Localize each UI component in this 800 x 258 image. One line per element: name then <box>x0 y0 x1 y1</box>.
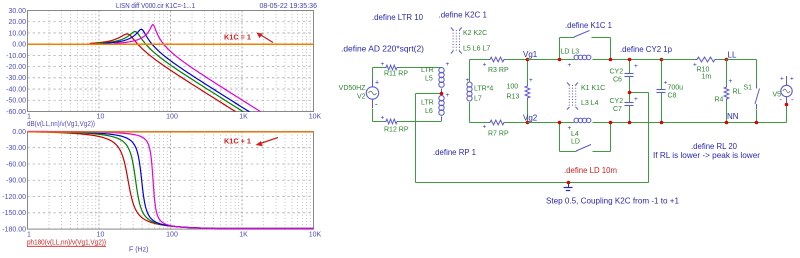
plot2 phase curve f0=25.5 <box>28 132 314 229</box>
node C7 bottom <box>628 121 632 125</box>
svg-text:0.00: 0.00 <box>12 42 26 49</box>
svg-text:+: + <box>664 80 668 87</box>
svg-text:L3 L4: L3 L4 <box>581 100 599 107</box>
coupling K2 symbol <box>452 30 454 51</box>
svg-text:+: + <box>483 124 487 131</box>
svg-text:V5: V5 <box>773 92 782 99</box>
wire S1 to NN rail <box>756 110 758 123</box>
svg-text:CY2: CY2 <box>610 98 624 105</box>
svg-text:100: 100 <box>166 232 178 239</box>
wire NN rail to V5 <box>786 105 788 123</box>
resistor R13 <box>527 60 529 85</box>
plot2 y axis labels <box>2 129 26 234</box>
resistor R4 <box>726 60 728 86</box>
inductor L5 <box>439 68 444 73</box>
svg-text:LTR: LTR <box>421 100 434 107</box>
svg-text:1K: 1K <box>239 114 248 121</box>
svg-text:VD50HZ: VD50HZ <box>339 85 367 92</box>
svg-text:-120.00: -120.00 <box>2 194 26 201</box>
svg-text:.define LD 10m: .define LD 10m <box>564 166 617 175</box>
svg-text:S1: S1 <box>744 85 753 92</box>
wire ground rail <box>416 182 649 184</box>
svg-text:1: 1 <box>27 114 31 121</box>
wire C8 to R10 <box>662 59 696 61</box>
node C6 top <box>628 58 632 62</box>
svg-text:dB(v(LL,nn)/v(Vg1,Vg2)): dB(v(LL,nn)/v(Vg1,Vg2)) <box>27 121 95 128</box>
svg-text:R12 RP: R12 RP <box>384 127 409 134</box>
svg-text:1K: 1K <box>239 232 248 239</box>
capacitor C6 <box>629 60 631 74</box>
svg-text:+: + <box>466 77 470 84</box>
svg-text:CY2: CY2 <box>610 69 624 76</box>
svg-text:-60.00: -60.00 <box>6 161 26 168</box>
svg-text:C6: C6 <box>613 77 622 84</box>
plot1 magnitude curve f0=39.5 <box>28 29 250 111</box>
svg-text:+: + <box>693 62 697 69</box>
plot1 annotation arrow <box>260 35 273 43</box>
node bypass top left <box>558 58 562 62</box>
svg-text:LTR*4: LTR*4 <box>474 86 493 93</box>
svg-text:F (Hz): F (Hz) <box>129 247 148 254</box>
node bypass bottom left <box>558 121 562 125</box>
plot grid <box>28 11 314 230</box>
capacitor C7 <box>629 93 631 103</box>
plot2 phase curve f0=57.0 <box>28 131 314 228</box>
node ground junction <box>567 181 571 185</box>
svg-text:NN: NN <box>727 112 739 121</box>
wire R12 to L6 <box>399 121 442 123</box>
plot1 magnitude curve f0=25.5 <box>28 34 236 112</box>
node C8 top <box>660 58 664 62</box>
wire R10 to LL <box>717 59 727 61</box>
svg-text:+: + <box>729 78 733 85</box>
svg-text:Step 0.5, Coupling K2C from -1: Step 0.5, Coupling K2C from -1 to +1 <box>546 197 680 206</box>
svg-text:100: 100 <box>166 114 178 121</box>
svg-text:.define LTR 10: .define LTR 10 <box>372 13 424 22</box>
svg-text:0.00: 0.00 <box>12 129 26 136</box>
svg-text:LISN diff V000.cir K1C=-1...1: LISN diff V000.cir K1C=-1...1 <box>116 1 195 10</box>
svg-text:R7 RP: R7 RP <box>488 131 509 138</box>
svg-text:-: - <box>375 100 378 109</box>
svg-text:.define K1C 1: .define K1C 1 <box>565 21 613 30</box>
svg-text:10K: 10K <box>309 232 322 239</box>
svg-text:K1 K1C: K1 K1C <box>581 85 605 92</box>
svg-text:-50.00: -50.00 <box>6 98 26 105</box>
node L5-L6 junction <box>440 92 444 96</box>
svg-text:+: + <box>375 80 379 87</box>
svg-text:LL: LL <box>728 51 737 60</box>
svg-text:ph180(v(LL,nn)/v(Vg1,Vg2)): ph180(v(LL,nn)/v(Vg1,Vg2)) <box>27 240 106 247</box>
svg-text:.define K2C 1: .define K2C 1 <box>439 11 488 20</box>
svg-text:-60.00: -60.00 <box>6 109 26 116</box>
svg-text:+: + <box>568 62 572 69</box>
svg-text:+: + <box>446 92 450 99</box>
svg-text:R11 RP: R11 RP <box>384 71 408 78</box>
svg-text:20.00: 20.00 <box>8 19 26 26</box>
svg-text:+: + <box>381 115 385 122</box>
plot1 y axis labels <box>6 8 26 116</box>
wire R11 to L5 <box>399 67 442 69</box>
node V5 bottom <box>785 103 789 107</box>
plot1 border <box>28 11 314 112</box>
wire LL to S1 <box>727 59 757 61</box>
svg-text:LD: LD <box>571 139 580 146</box>
svg-text:C8: C8 <box>668 93 677 100</box>
svg-text:.define AD 220*sqrt(2): .define AD 220*sqrt(2) <box>341 45 424 54</box>
svg-text:10.00: 10.00 <box>8 30 26 37</box>
svg-text:-20.00: -20.00 <box>6 64 26 71</box>
svg-text:1: 1 <box>27 232 31 239</box>
svg-text:+: + <box>634 63 638 70</box>
plot1 magnitude curve f0=32.5 <box>28 32 244 112</box>
svg-text:Vg1: Vg1 <box>523 50 538 59</box>
wire L4 to NN <box>593 122 787 124</box>
svg-text:+: + <box>634 96 638 103</box>
plot1 x axis labels <box>27 114 322 121</box>
svg-text:R3 RP: R3 RP <box>488 67 509 74</box>
svg-text:+: + <box>568 125 572 132</box>
svg-text:LD L3: LD L3 <box>561 49 580 56</box>
svg-text:.define CY2 1p: .define CY2 1p <box>620 45 673 54</box>
svg-text:Vg2: Vg2 <box>523 114 538 123</box>
svg-text:LTR: LTR <box>421 67 434 74</box>
svg-text:-180.00: -180.00 <box>2 227 26 234</box>
svg-text:C7: C7 <box>613 106 622 113</box>
wire R7 to Vg2 <box>506 122 528 124</box>
plot2 phase curve f0=32.5 <box>28 132 314 229</box>
wire L5-L6 midtap <box>416 93 442 95</box>
resistor R11 <box>385 65 399 70</box>
svg-text:.define RL 20: .define RL 20 <box>691 142 738 151</box>
wire R3 to Vg1 <box>506 59 528 61</box>
plot2 border <box>28 131 314 229</box>
plot2 phase curve f0=39.5 <box>28 132 314 229</box>
svg-text:L7: L7 <box>474 96 482 103</box>
inductor L4 <box>574 118 579 123</box>
wire L7 bottom to R7 <box>470 122 489 124</box>
svg-text:+: + <box>790 76 794 83</box>
svg-text:30.00: 30.00 <box>8 8 26 15</box>
source V5 body <box>781 85 792 96</box>
svg-text:10K: 10K <box>309 114 322 121</box>
L4 bypass switch <box>559 123 561 152</box>
switch S1 <box>756 83 758 89</box>
inductor L6 <box>439 96 444 101</box>
svg-text:-150.00: -150.00 <box>2 210 26 217</box>
resistor R3 <box>489 57 506 62</box>
svg-text:-10.00: -10.00 <box>6 53 26 60</box>
resistor R12 <box>385 119 399 124</box>
plot2 x axis labels <box>27 232 322 239</box>
svg-text:-30.00: -30.00 <box>6 145 26 152</box>
wire Ycap midpoint down <box>648 93 650 183</box>
svg-text:700u: 700u <box>668 85 684 92</box>
svg-text:K1C = 1: K1C = 1 <box>224 33 251 42</box>
inductor L7 <box>469 60 471 83</box>
svg-text:R10: R10 <box>697 67 710 74</box>
wire Vg2 to L4 <box>528 122 575 124</box>
resistor R7 <box>489 120 506 125</box>
plot2 annotation arrow <box>261 138 278 144</box>
node C8 bottom <box>660 121 664 125</box>
svg-text:If RL is lower -> peak is lowe: If RL is lower -> peak is lower <box>653 151 760 160</box>
wire L7 top to R3 <box>470 59 489 61</box>
svg-text:R4: R4 <box>715 97 724 104</box>
plot2 orange curve 0 deg <box>28 131 314 133</box>
node S1 bottom <box>755 121 759 125</box>
wire L3 to C6 <box>593 59 662 61</box>
svg-text:L6: L6 <box>425 108 433 115</box>
svg-text:RL: RL <box>733 89 742 96</box>
svg-text:L4: L4 <box>571 131 579 138</box>
node C6-C7 mid <box>628 91 632 95</box>
svg-text:1m: 1m <box>702 74 712 81</box>
plot1 orange curve K1C=1 flat 0dB <box>28 43 314 45</box>
wire V2 top to R11 <box>373 67 385 69</box>
node bypass top right <box>609 58 613 62</box>
coupling K1 symbol <box>568 85 570 107</box>
svg-text:.define RP 1: .define RP 1 <box>433 148 477 157</box>
svg-text:V2: V2 <box>357 94 366 101</box>
inductor L3 <box>574 55 579 60</box>
svg-text:10: 10 <box>97 114 105 121</box>
ground symbol <box>568 183 570 188</box>
svg-text:-30.00: -30.00 <box>6 75 26 82</box>
svg-text:R13: R13 <box>507 94 520 101</box>
svg-text:+: + <box>446 61 450 68</box>
svg-text:+: + <box>780 76 784 83</box>
node bypass bottom right <box>609 121 613 125</box>
capacitor C8 <box>661 60 663 90</box>
svg-text:K1C + 1: K1C + 1 <box>224 137 251 146</box>
svg-text:-40.00: -40.00 <box>6 87 26 94</box>
L3 bypass switch <box>559 38 561 60</box>
svg-text:+: + <box>483 62 487 69</box>
svg-text:100: 100 <box>507 84 519 91</box>
svg-text:+: + <box>381 61 385 68</box>
wire V2 bottom to R12 <box>372 109 374 122</box>
svg-text:-90.00: -90.00 <box>6 178 26 185</box>
source V2 body <box>366 87 378 99</box>
wire Vg1 to L3 <box>528 59 575 61</box>
svg-text:K2 K2C: K2 K2C <box>463 30 487 37</box>
svg-text:+: + <box>529 77 533 84</box>
svg-text:08-05-22 19:35:36: 08-05-22 19:35:36 <box>260 1 318 10</box>
svg-text:10: 10 <box>97 232 105 239</box>
resistor R10 <box>696 57 717 62</box>
plot1 magnitude curve f0=57.0 <box>28 25 261 112</box>
svg-text:L5 L6 L7: L5 L6 L7 <box>463 46 490 53</box>
svg-text:L5: L5 <box>425 76 433 83</box>
